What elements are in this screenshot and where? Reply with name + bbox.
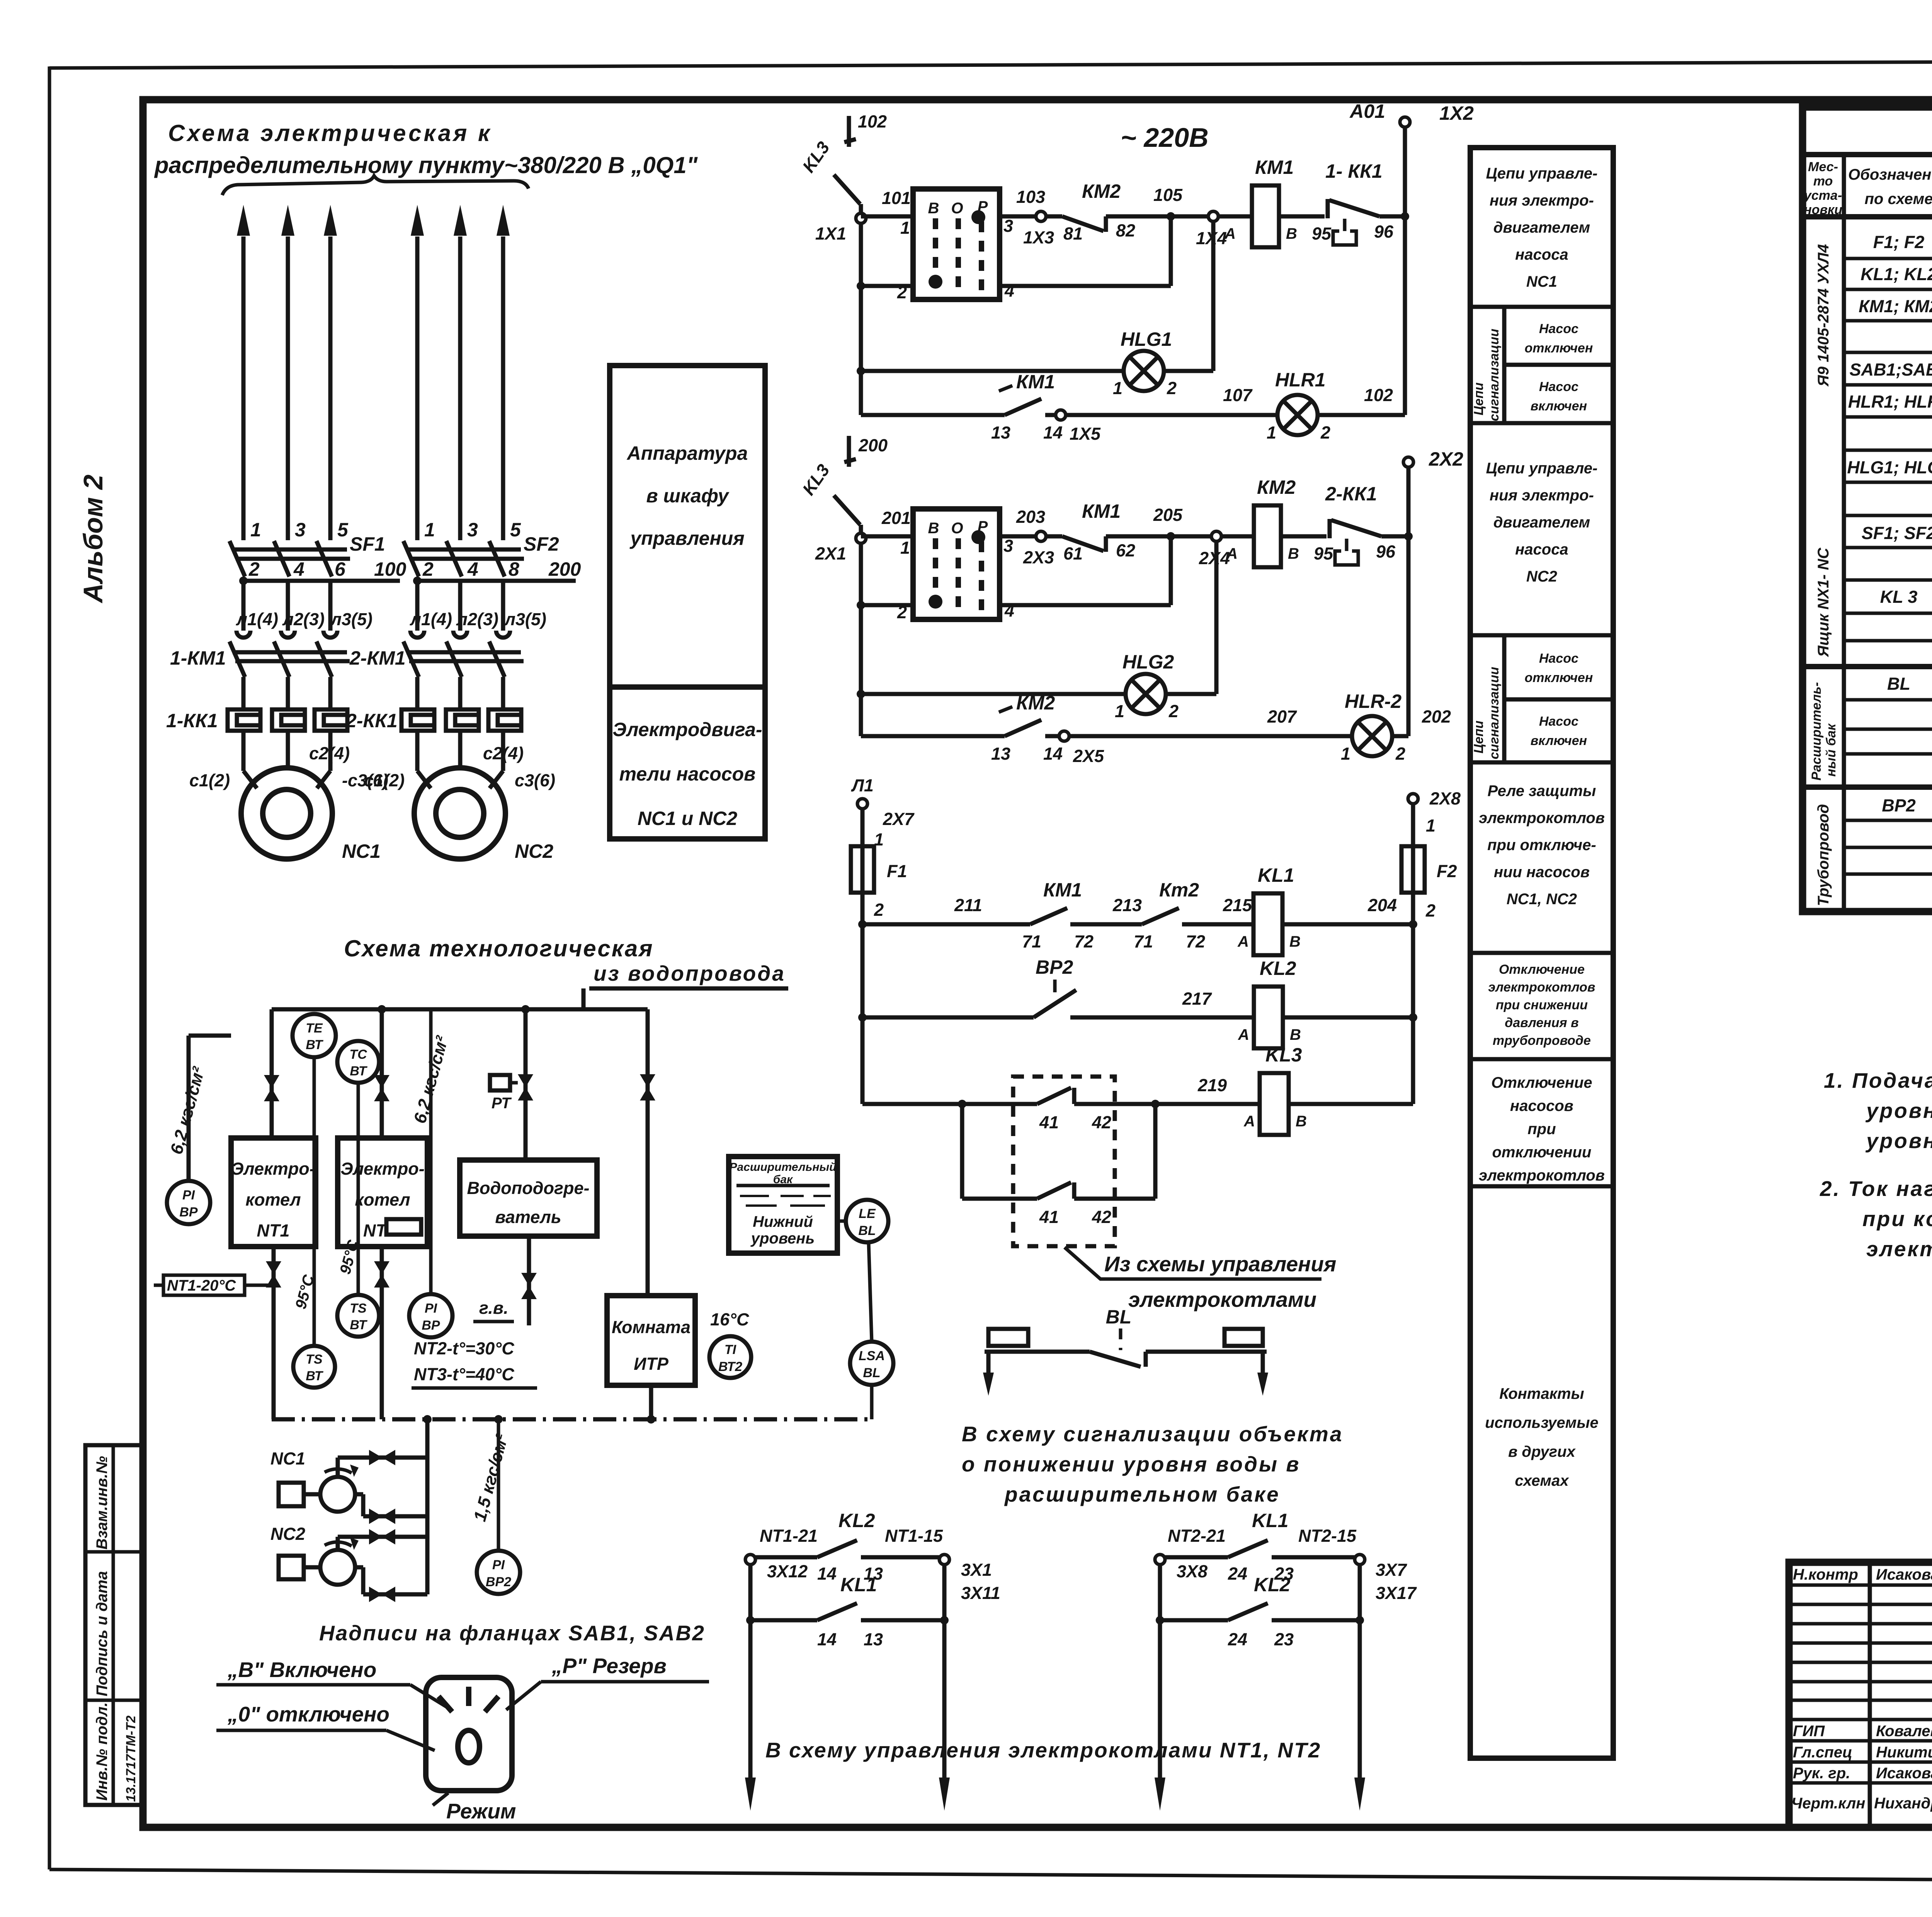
svg-text:ный бак: ный бак xyxy=(1824,723,1838,777)
bottom rung circuit1 xyxy=(861,413,1005,417)
svg-text:2X3: 2X3 xyxy=(1023,548,1054,567)
svg-text:NT1-15: NT1-15 xyxy=(885,1526,943,1546)
svg-text:А: А xyxy=(1226,545,1238,562)
svg-text:NT1: NT1 xyxy=(257,1221,289,1240)
cabinet apparatus box xyxy=(610,366,765,839)
pin labels 1 3 5 (SF2) xyxy=(424,519,521,541)
svg-text:Гл.спец: Гл.спец xyxy=(1793,1744,1852,1761)
svg-text:Электро-: Электро- xyxy=(231,1159,315,1179)
svg-text:3: 3 xyxy=(1003,536,1013,556)
svg-text:3: 3 xyxy=(295,519,306,541)
svg-text:л3(5): л3(5) xyxy=(330,609,372,629)
contactor NO contact KM1 (13-14) xyxy=(991,371,1063,442)
note: to object signalling scheme xyxy=(962,1422,1343,1506)
rotated location labels xyxy=(1809,244,1838,906)
svg-text:двигателем: двигателем xyxy=(1493,514,1590,531)
svg-text:в шкафу: в шкафу xyxy=(646,485,729,507)
svg-text:1-КК1: 1-КК1 xyxy=(166,710,218,731)
svg-text:уста-: уста- xyxy=(1803,188,1842,203)
svg-text:КМ2: КМ2 xyxy=(1082,180,1121,202)
wire: SAB1 lower branch xyxy=(857,216,1171,290)
svg-text:КМ1; КМ2: КМ1; КМ2 xyxy=(1859,296,1932,316)
svg-text:электрокотлов: электрокотлов xyxy=(1479,1167,1605,1184)
svg-text:электрокотлами: электрокотлами xyxy=(1128,1288,1316,1311)
switch SAB2 xyxy=(897,509,1014,622)
switch SAB1 xyxy=(897,189,1014,302)
svg-text:уровня воды в баке ниже к: уровня воды в баке ниже контрольного xyxy=(1865,1099,1932,1123)
wire 200 xyxy=(413,558,581,585)
svg-text:Электро-: Электро- xyxy=(340,1159,425,1179)
instrument TC VT xyxy=(337,1041,379,1295)
label R reserve xyxy=(506,1654,709,1710)
wire 100 xyxy=(239,558,406,585)
pin labels 1 3 5 (SF1) xyxy=(250,519,349,541)
svg-text:„В" Включено: „В" Включено xyxy=(227,1658,376,1682)
wire: SAB2 lower branch xyxy=(857,536,1171,609)
svg-text:5: 5 xyxy=(337,519,349,541)
svg-text:В схему сигнализации объект: В схему сигнализации объекта xyxy=(962,1422,1343,1446)
svg-text:SF1; SF2: SF1; SF2 xyxy=(1862,523,1932,543)
svg-text:KL1: KL1 xyxy=(1258,864,1294,886)
svg-text:KL 3: KL 3 xyxy=(1880,587,1918,607)
table row KM1 KM2 starter xyxy=(1859,296,1932,318)
svg-text:ГИП: ГИП xyxy=(1793,1723,1825,1740)
svg-text:ВL: ВL xyxy=(863,1366,880,1380)
svg-text:ТS: ТS xyxy=(306,1352,323,1367)
table row VR2 manometer xyxy=(1882,796,1932,846)
contactor contacts 2-KM1 xyxy=(403,641,524,709)
svg-text:2-КК1: 2-КК1 xyxy=(1325,483,1377,505)
svg-text:4: 4 xyxy=(293,558,304,580)
svg-text:1: 1 xyxy=(1426,816,1435,835)
svg-text:HLG1; HLG2: HLG1; HLG2 xyxy=(1847,458,1932,477)
svg-text:Комната: Комната xyxy=(612,1317,690,1337)
svg-text:1. Подача сигнала дежурному: 1. Подача сигнала дежурному при падении xyxy=(1824,1068,1932,1092)
svg-text:Исакова: Исакова xyxy=(1876,1765,1932,1782)
svg-text:Обозначение: Обозначение xyxy=(1848,166,1932,183)
svg-text:то: то xyxy=(1813,174,1833,189)
svg-text:отключен: отключен xyxy=(1525,670,1593,685)
svg-text:ВР2: ВР2 xyxy=(1036,956,1073,978)
svg-text:КМ1: КМ1 xyxy=(1082,500,1121,522)
svg-text:42: 42 xyxy=(1092,1112,1111,1132)
svg-text:F2: F2 xyxy=(1437,861,1457,881)
valve (boiler NT2 outlet) xyxy=(374,1247,389,1419)
svg-text:100: 100 xyxy=(374,558,406,580)
svg-text:В схему управления электрок: В схему управления электрокотлами NT1, N… xyxy=(765,1738,1321,1762)
svg-text:Цепи управле-: Цепи управле- xyxy=(1486,165,1598,182)
svg-text:202: 202 xyxy=(1422,707,1451,726)
dashed box (from boiler control scheme) xyxy=(1013,1077,1115,1246)
table column headers xyxy=(1803,160,1932,217)
pressure gauge PI VR (heater) xyxy=(409,1009,452,1337)
svg-text:сигнализации: сигнализации xyxy=(1487,667,1502,759)
coil KM2 xyxy=(1226,476,1327,567)
svg-text:включен: включен xyxy=(1531,733,1587,748)
svg-text:215: 215 xyxy=(1223,895,1252,915)
wire 101 xyxy=(861,188,913,216)
terminal 2X5 xyxy=(1045,707,1352,766)
svg-text:NT2-21: NT2-21 xyxy=(1168,1526,1226,1546)
svg-text:отключен: отключен xyxy=(1525,341,1593,356)
wire 201 xyxy=(861,508,913,536)
svg-text:KL1: KL1 xyxy=(840,1574,877,1596)
water heater xyxy=(460,1160,597,1236)
svg-text:KL2: KL2 xyxy=(838,1510,875,1531)
thermal relay 1-KK1 heaters xyxy=(228,709,347,731)
svg-text:1: 1 xyxy=(900,218,910,238)
svg-text:71: 71 xyxy=(1134,932,1153,951)
pressure gauge PI VR (boilers) xyxy=(167,1036,231,1224)
pump piping with bypass valves xyxy=(338,1419,427,1602)
main water pipe xyxy=(272,1005,648,1014)
svg-text:О: О xyxy=(951,520,963,537)
pin labels 2 4 6 (SF1) xyxy=(248,558,346,580)
title block signature rows xyxy=(1791,1566,1932,1812)
svg-text:Черт.клн: Черт.клн xyxy=(1791,1795,1865,1812)
cell: boiler shutdown on pressure drop xyxy=(1488,962,1595,1048)
instrument TI VT2 xyxy=(709,1336,751,1378)
svg-text:213: 213 xyxy=(1112,895,1142,915)
svg-text:Нихандрова: Нихандрова xyxy=(1874,1795,1932,1812)
motor NC2 xyxy=(414,731,505,859)
svg-text:Расширительный: Расширительный xyxy=(730,1161,837,1174)
contactor NO contact KM1 (71-72) xyxy=(1022,879,1142,951)
svg-text:~ 220В: ~ 220В xyxy=(1121,122,1209,153)
title block frame xyxy=(1789,1562,1932,1827)
breaker SF1 xyxy=(230,541,350,577)
svg-text:„0" отключено: „0" отключено xyxy=(227,1702,389,1726)
wire: circuit2 left vertical xyxy=(859,525,863,736)
feeder arrow L1-2 xyxy=(281,205,294,540)
svg-text:3X1: 3X1 xyxy=(961,1560,992,1580)
rung 3 wire xyxy=(862,1100,1037,1108)
svg-text:KL1; KL2: KL1; KL2 xyxy=(1861,264,1932,284)
svg-text:4: 4 xyxy=(467,558,478,580)
pump NC2 xyxy=(270,1524,359,1585)
hot water outlet valve xyxy=(473,1236,537,1325)
svg-text:LЕ: LЕ xyxy=(859,1206,876,1221)
svg-text:NT1-20°C: NT1-20°C xyxy=(167,1277,236,1294)
svg-text:105: 105 xyxy=(1153,185,1183,205)
svg-text:13: 13 xyxy=(991,744,1010,764)
breaker SF2 xyxy=(403,541,524,577)
svg-text:14: 14 xyxy=(1043,423,1063,442)
svg-text:ния электро-: ния электро- xyxy=(1490,192,1594,209)
svg-text:включен: включен xyxy=(1531,399,1587,413)
svg-text:Ящик NX1- NC: Ящик NX1- NC xyxy=(1815,547,1832,657)
svg-text:Мес-: Мес- xyxy=(1808,160,1838,174)
svg-text:1: 1 xyxy=(1267,423,1276,442)
table row F1 F2 fuse xyxy=(1873,226,1932,256)
svg-text:отключении: отключении xyxy=(1492,1144,1592,1161)
svg-text:24: 24 xyxy=(1228,1630,1247,1649)
svg-text:РI: РI xyxy=(182,1188,196,1203)
svg-text:из водопровода: из водопровода xyxy=(594,961,786,985)
svg-text:ВL: ВL xyxy=(858,1223,876,1238)
svg-text:217: 217 xyxy=(1182,989,1212,1009)
svg-text:ВТ: ВТ xyxy=(306,1369,323,1383)
svg-text:NT2-15: NT2-15 xyxy=(1298,1526,1357,1546)
wires SF1 down with hooks xyxy=(236,581,337,638)
svg-text:NC1 и NC2: NC1 и NC2 xyxy=(638,808,738,829)
svg-text:82: 82 xyxy=(1116,221,1135,240)
svg-text:Насос: Насос xyxy=(1539,651,1578,666)
svg-text:с1(2): с1(2) xyxy=(364,771,405,790)
left margin stamp strip xyxy=(85,1445,143,1805)
svg-text:NС1: NС1 xyxy=(1526,273,1557,290)
svg-text:РI: РI xyxy=(492,1558,505,1572)
rung 211 xyxy=(862,895,1030,924)
svg-text:2. Ток нагревательного элем: 2. Ток нагревательного элемента определя… xyxy=(1820,1177,1932,1201)
cell: NC2 motor control circuits xyxy=(1486,460,1598,585)
svg-text:Схема электрическая к: Схема электрическая к xyxy=(168,120,492,146)
svg-text:Реле защиты: Реле защиты xyxy=(1488,782,1596,799)
svg-text:КМ1: КМ1 xyxy=(1255,156,1294,178)
svg-text:1X3: 1X3 xyxy=(1023,228,1054,247)
svg-text:42: 42 xyxy=(1092,1207,1111,1227)
level alarm LSA BL xyxy=(850,1342,893,1419)
table row HLR1 HLR2 red lamp xyxy=(1848,392,1932,445)
cell: NC1 motor control circuits xyxy=(1486,165,1598,290)
svg-text:Цепи: Цепи xyxy=(1471,721,1486,754)
svg-text:95: 95 xyxy=(1312,224,1332,243)
contactor NC contact KM2 (81-82) xyxy=(1062,180,1171,243)
table row KL1 KL2 relay xyxy=(1861,262,1932,289)
wire: circuit2 right vertical to 2X2 xyxy=(1403,448,1463,736)
svg-text:3X11: 3X11 xyxy=(961,1583,1000,1603)
table row SAB1 SAB2 switch xyxy=(1849,360,1932,381)
svg-text:Надписи на фланцах SАВ1, S: Надписи на фланцах SАВ1, SАВ2 xyxy=(319,1621,705,1645)
relay contact KL3 (top of circuit 2) xyxy=(798,435,888,525)
svg-text:2X7: 2X7 xyxy=(883,809,915,829)
svg-text:г.в.: г.в. xyxy=(479,1298,509,1318)
svg-text:ния электро-: ния электро- xyxy=(1490,487,1594,504)
svg-text:ВР: ВР xyxy=(422,1318,440,1333)
contactor NC contact KM1 (61-62) xyxy=(1062,500,1171,563)
svg-text:3X12: 3X12 xyxy=(767,1561,808,1581)
svg-text:2: 2 xyxy=(1425,901,1435,920)
svg-text:В: В xyxy=(1289,933,1301,950)
svg-text:2X2: 2X2 xyxy=(1429,448,1463,470)
svg-text:с3(6): с3(6) xyxy=(515,771,555,790)
cell: signalling circuits NC1 xyxy=(1471,307,1613,423)
note 2 xyxy=(1820,1177,1932,1261)
svg-text:HLG2: HLG2 xyxy=(1122,651,1174,673)
svg-text:ТS: ТS xyxy=(350,1301,367,1316)
svg-text:ИТР: ИТР xyxy=(634,1354,669,1374)
svg-text:1-КМ1: 1-КМ1 xyxy=(170,647,226,669)
lamp HLG1 xyxy=(1113,328,1177,398)
return pipe (dash-dot) xyxy=(272,1415,872,1424)
svg-text:уровня производится контакто: уровня производится контактом датчика BL… xyxy=(1865,1129,1932,1153)
svg-text:В: В xyxy=(1286,225,1297,242)
svg-text:Отключение: Отключение xyxy=(1499,962,1585,977)
svg-text:Отключение: Отключение xyxy=(1491,1074,1592,1091)
svg-text:16°C: 16°C xyxy=(710,1310,750,1329)
svg-text:при отключе-: при отключе- xyxy=(1487,837,1596,854)
svg-text:А: А xyxy=(1237,933,1249,950)
svg-text:Водоподогре-: Водоподогре- xyxy=(467,1178,589,1198)
svg-text:ТС: ТС xyxy=(349,1047,367,1062)
table row KL3 relay xyxy=(1880,583,1932,613)
contactor NO contact KM2 (71-72) xyxy=(1134,879,1253,951)
relay contact KL3 (top of circuit 1) xyxy=(798,112,887,204)
pin labels 2 4 8 (SF2) xyxy=(422,558,519,580)
svg-text:Взам.инв.№: Взам.инв.№ xyxy=(94,1456,111,1550)
svg-text:F1; F2: F1; F2 xyxy=(1873,232,1925,252)
callout: from boiler control scheme xyxy=(1065,1247,1336,1311)
wires SF2 down with hooks xyxy=(410,581,510,638)
svg-text:96: 96 xyxy=(1374,222,1394,242)
svg-text:используемые: используемые xyxy=(1485,1414,1599,1431)
svg-text:NC1, NC2: NC1, NC2 xyxy=(1507,891,1577,908)
contact group NT1: relay contact KL1 (14-13) xyxy=(746,1574,949,1649)
svg-text:BL: BL xyxy=(1106,1306,1132,1328)
svg-text:насосов: насосов xyxy=(1510,1097,1573,1114)
svg-text:1: 1 xyxy=(900,538,910,558)
wire labels l1(4) l2(3) l3(5) group2 xyxy=(410,609,546,629)
table row BL float relay xyxy=(1887,674,1932,726)
terminal 2X8 and fuse F2 xyxy=(1401,789,1461,924)
svg-text:1: 1 xyxy=(1115,701,1124,721)
wire 203 with terminal 2X3 xyxy=(1000,507,1062,567)
svg-text:Насос: Насос xyxy=(1539,379,1578,394)
svg-text:Кт2: Кт2 xyxy=(1159,879,1199,901)
svg-text:NС2: NС2 xyxy=(270,1524,305,1544)
coil KL1 xyxy=(1237,864,1413,955)
contactor contacts 1-KM1 xyxy=(230,641,350,709)
lamp HLR1 xyxy=(1267,369,1405,442)
svg-text:л3(5): л3(5) xyxy=(504,609,546,629)
lamp branch wire (circuit2) xyxy=(857,541,1216,698)
svg-text:ТI: ТI xyxy=(724,1342,737,1357)
svg-text:КМ2: КМ2 xyxy=(1257,476,1296,498)
svg-text:3X7: 3X7 xyxy=(1376,1560,1407,1580)
svg-text:1: 1 xyxy=(1341,744,1350,764)
svg-text:14: 14 xyxy=(817,1564,837,1584)
svg-text:Подпись и дата: Подпись и дата xyxy=(94,1571,111,1696)
terminal 1X4 xyxy=(1171,211,1252,248)
svg-text:управления: управления xyxy=(629,527,744,549)
svg-text:3X17: 3X17 xyxy=(1376,1583,1417,1603)
svg-text:Исакова: Исакова xyxy=(1876,1566,1932,1583)
svg-text:тели насосов: тели насосов xyxy=(619,763,756,785)
wire: circuit3 left vertical xyxy=(858,893,867,1104)
svg-text:Контакты: Контакты xyxy=(1499,1385,1584,1402)
svg-text:с2(4): с2(4) xyxy=(309,743,350,763)
svg-text:NT3-t°=40°C: NT3-t°=40°C xyxy=(414,1364,515,1384)
valve (boiler NT1 outlet) xyxy=(266,1247,281,1419)
svg-text:РI: РI xyxy=(425,1301,438,1316)
svg-text:Цепи: Цепи xyxy=(1471,383,1486,415)
mode selector handle symbol xyxy=(426,1677,512,1805)
svg-text:В: В xyxy=(1296,1113,1307,1130)
svg-text:при снижении: при снижении xyxy=(1496,998,1588,1012)
svg-text:КМ2: КМ2 xyxy=(1016,692,1055,714)
svg-text:Инв.№ подл.: Инв.№ подл. xyxy=(94,1702,111,1801)
wire: circuit3 right vertical xyxy=(1409,920,1417,1104)
terminal 2X1 xyxy=(815,533,866,563)
svg-text:распределительному пункту~380: распределительному пункту~380/220 В „0Q1… xyxy=(154,152,698,178)
svg-text:13: 13 xyxy=(991,423,1010,442)
svg-text:NT1-21: NT1-21 xyxy=(760,1526,818,1546)
thermal NC contact 2-KK1 (95-96) xyxy=(1314,483,1408,565)
coil KM1 xyxy=(1224,156,1325,247)
label V on xyxy=(216,1658,448,1708)
svg-text:96: 96 xyxy=(1376,542,1396,561)
svg-text:котел: котел xyxy=(245,1190,301,1209)
pressure switch contact BP2 xyxy=(862,956,1254,1017)
label: from water supply xyxy=(583,961,788,1009)
svg-text:электрооборудования.: электрооборудования. xyxy=(1866,1237,1932,1261)
wire 103 with terminal 1X3 xyxy=(1000,187,1062,247)
svg-text:101: 101 xyxy=(882,188,911,208)
svg-text:71: 71 xyxy=(1022,932,1041,951)
bottom rung circuit2 xyxy=(861,734,1005,738)
svg-text:новки: новки xyxy=(1804,202,1842,217)
svg-text:Трубопровод: Трубопровод xyxy=(1815,804,1832,906)
svg-text:в других: в других xyxy=(1508,1443,1576,1460)
svg-text:KL2: KL2 xyxy=(1254,1574,1291,1596)
svg-text:NC2: NC2 xyxy=(515,840,553,862)
svg-text:1- КК1: 1- КК1 xyxy=(1325,160,1383,182)
svg-text:205: 205 xyxy=(1153,505,1183,525)
svg-text:24: 24 xyxy=(1228,1564,1247,1584)
contact group NT2: relay contact KL1 (24-23) xyxy=(1155,1510,1417,1811)
svg-text:ВР2: ВР2 xyxy=(486,1575,511,1589)
svg-text:NT2-t°=30°C: NT2-t°=30°C xyxy=(414,1339,515,1358)
svg-text:трубопроводе: трубопроводе xyxy=(1493,1033,1591,1048)
svg-text:1X5: 1X5 xyxy=(1070,424,1101,444)
svg-text:14: 14 xyxy=(817,1630,837,1649)
terminal L1 / 2X7 xyxy=(851,776,915,849)
pressure gauge PI VR2 xyxy=(477,1419,520,1594)
wire: circuit1 left vertical xyxy=(859,204,863,415)
svg-text:NC1: NC1 xyxy=(342,840,381,862)
svg-text:KL3: KL3 xyxy=(1265,1044,1302,1066)
svg-text:давления в: давления в xyxy=(1505,1015,1578,1030)
wire labels l1(4) l2(3) l3(5) group1 xyxy=(236,609,372,629)
fuse F1 xyxy=(851,846,907,920)
svg-text:61: 61 xyxy=(1063,544,1083,563)
svg-text:LSА: LSА xyxy=(859,1349,885,1363)
svg-text:Расширитель-: Расширитель- xyxy=(1809,682,1824,781)
svg-text:насоса: насоса xyxy=(1515,246,1568,263)
svg-text:2-КК1: 2-КК1 xyxy=(345,710,398,731)
labels c1(2) c2(4) c3(6) for NC2 xyxy=(364,743,555,790)
valve (room heating branch) xyxy=(640,1009,655,1296)
svg-text:HLR-2: HLR-2 xyxy=(1345,691,1401,712)
svg-text:2: 2 xyxy=(248,558,260,580)
cell: boiler protection relay xyxy=(1479,782,1605,908)
cell: pump shutdown on boiler off xyxy=(1479,1074,1605,1184)
svg-text:NС2: NС2 xyxy=(1526,568,1557,585)
svg-text:2: 2 xyxy=(1395,744,1405,764)
svg-text:В: В xyxy=(928,200,939,217)
svg-text:2: 2 xyxy=(1167,378,1177,398)
svg-text:Цепи управле-: Цепи управле- xyxy=(1486,460,1598,477)
feeder arrow L2-3 xyxy=(497,205,510,540)
svg-text:ВР2: ВР2 xyxy=(1882,796,1916,815)
svg-text:200: 200 xyxy=(548,558,581,580)
svg-text:Из схемы управления: Из схемы управления xyxy=(1104,1252,1336,1276)
schema title text xyxy=(154,120,698,178)
feeder arrow L1-1 xyxy=(237,205,250,540)
electric boiler NT1 xyxy=(231,1138,316,1247)
rotated labels 95C xyxy=(292,1238,362,1311)
svg-text:1: 1 xyxy=(250,519,261,541)
